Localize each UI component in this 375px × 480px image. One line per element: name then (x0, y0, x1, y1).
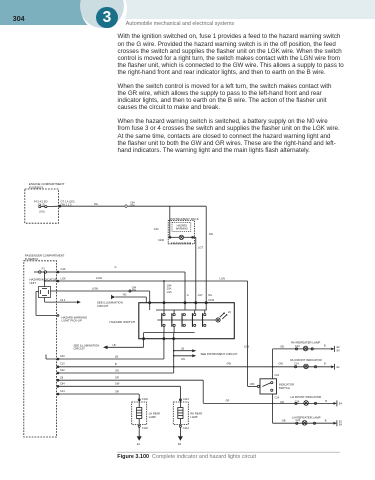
svg-text:RH REAR: RH REAR (190, 411, 202, 415)
wire LGK drop to hazard switch (163, 281, 165, 303)
LH front labels (226, 400, 343, 406)
hazard/indicator unit label (30, 277, 57, 285)
svg-text:WARNING: WARNING (176, 228, 188, 231)
illumination feed arrow in (112, 295, 147, 303)
svg-text:LGT: LGT (198, 246, 204, 250)
svg-text:LAMP: LAMP (149, 415, 156, 419)
svg-text:C42: C42 (60, 369, 65, 372)
svg-text:FUSEBOX: FUSEBOX (25, 257, 39, 261)
wire G labels (61, 265, 117, 271)
instrument feed arrows (174, 349, 197, 357)
svg-text:C10: C10 (60, 363, 65, 366)
passenger compartment fusebox (24, 261, 57, 437)
RH rear lamp lower connector (179, 425, 181, 427)
fusebox row labels (60, 355, 120, 393)
svg-text:CIRCUIT: CIRCUIT (97, 304, 109, 308)
svg-text:LGW: LGW (92, 286, 98, 290)
wire LGW from flasher to hazard switch (51, 291, 150, 303)
svg-text:GB: GB (280, 345, 284, 348)
connector C84 label (132, 286, 137, 291)
RH rear lamp (173, 402, 188, 425)
svg-text:LGK: LGK (61, 276, 66, 280)
RH rear lamp label (190, 411, 202, 419)
hazard warning light pick-up wire (36, 292, 59, 317)
hazard warning module box (172, 222, 191, 231)
hazard switch bottom terminals (143, 338, 175, 340)
svg-text:C24: C24 (296, 419, 301, 422)
svg-text:20A: 20A (132, 289, 137, 292)
svg-text:C114: C114 (183, 427, 189, 430)
svg-text:LGW: LGW (96, 276, 102, 280)
label GW (227, 362, 284, 366)
svg-text:E4: E4 (339, 424, 343, 427)
svg-text:C230: C230 (158, 239, 165, 242)
svg-text:GN: GN (181, 358, 185, 361)
LGN wire drop to indicator switch (248, 281, 260, 388)
wire LGK labels (61, 276, 225, 280)
wire G to hazard switch (57, 271, 186, 303)
LH rear lamp label (149, 411, 160, 419)
svg-text:LGN: LGN (244, 346, 249, 349)
svg-text:10A: 10A (130, 204, 135, 207)
engine compartment fusebox (25, 189, 59, 223)
svg-text:C8: C8 (60, 376, 64, 379)
LH rear lamp ground (137, 428, 142, 441)
svg-text:B: B (324, 345, 326, 348)
wire NG vertical drop to hazard switch (205, 206, 207, 303)
hazard switch internal top bus (150, 303, 207, 310)
svg-text:GW 1 1.5: GW 1 1.5 (61, 202, 73, 206)
svg-text:GN: GN (115, 369, 119, 372)
svg-text:LGK: LGK (167, 291, 172, 294)
link repeater to indicator switch (272, 349, 274, 379)
hazard switch (139, 303, 235, 339)
svg-text:E4: E4 (337, 349, 341, 352)
svg-text:GW: GW (279, 362, 284, 366)
hazard switch tell-tale lamp (208, 312, 228, 322)
svg-text:GR: GR (280, 401, 284, 404)
svg-text:LGT: LGT (198, 294, 203, 297)
illumination return arrow (103, 339, 144, 349)
svg-text:RH FRONT INDICATOR: RH FRONT INDICATOR (290, 358, 321, 362)
hazard warning lamp (168, 235, 196, 239)
svg-text:C20: C20 (154, 228, 159, 231)
instrument pack (168, 221, 194, 244)
svg-text:LGN: LGN (220, 276, 225, 280)
connector C84 on wire NG (124, 204, 128, 208)
svg-text:LB: LB (115, 355, 118, 358)
svg-text:GW: GW (115, 383, 120, 386)
wire GR to LH rear lamp (57, 393, 140, 402)
caption rule (117, 451, 340, 453)
junction LGK riser (163, 280, 165, 282)
flasher relay unit (39, 272, 51, 298)
wire NG from fusebox to hazard switch (58, 205, 206, 207)
svg-text:NG: NG (209, 232, 213, 236)
svg-text:C4 4: C4 4 (60, 299, 66, 302)
engine compartment fusebox label (29, 182, 65, 190)
wire GW to RH rear lamp (57, 385, 181, 402)
svg-text:C24: C24 (275, 396, 280, 399)
svg-text:LH FRONT INDICATOR: LH FRONT INDICATOR (290, 395, 321, 399)
svg-text:C102: C102 (142, 398, 149, 401)
svg-text:RH REPEATER LAMP: RH REPEATER LAMP (291, 340, 320, 344)
RH front indicator row components (295, 364, 335, 370)
wire LB hazard switch to fusebox (46, 339, 164, 360)
svg-text:C24: C24 (295, 345, 300, 348)
hazard switch top terminals (149, 302, 208, 304)
hazard switch bottom bus (144, 327, 195, 339)
svg-text:G: G (187, 294, 189, 297)
wire name labels above switch (187, 294, 212, 297)
svg-text:C102: C102 (142, 427, 149, 430)
svg-text:GR: GR (115, 390, 119, 393)
svg-text:C114: C114 (183, 398, 189, 401)
LH repeater lamp row (273, 420, 337, 426)
svg-text:C14: C14 (295, 400, 300, 403)
wire GR to LH front indicator (57, 379, 204, 403)
svg-text:24: 24 (228, 311, 231, 314)
svg-text:GB: GB (282, 420, 286, 423)
RH rear lamp ground (178, 428, 183, 441)
svg-text:GW: GW (227, 362, 232, 366)
svg-text:B: B (325, 420, 327, 423)
hazard switch moving bar (157, 319, 208, 321)
svg-text:C14: C14 (60, 390, 65, 393)
hazard warning module label (176, 224, 188, 230)
LH rear lamp connector C102 (138, 399, 140, 401)
svg-text:C40: C40 (60, 355, 65, 358)
svg-text:LB: LB (181, 347, 184, 350)
svg-text:E4: E4 (178, 443, 182, 446)
svg-text:E1: E1 (137, 443, 141, 446)
LH front indicator row (203, 400, 337, 406)
svg-text:LAMP: LAMP (190, 415, 197, 419)
wire LGT from instrument pack to hazard switch (195, 237, 197, 302)
svg-text:G: G (115, 265, 117, 269)
svg-text:CIRCUIT: CIRCUIT (74, 347, 86, 351)
indicator switch label (279, 383, 294, 391)
svg-text:NG: NG (208, 294, 212, 297)
svg-text:C84: C84 (60, 383, 65, 386)
svg-text:F1: F1 (42, 267, 46, 271)
RH repeater lamp row (273, 346, 335, 352)
svg-text:SWITCH: SWITCH (279, 386, 290, 390)
hazard warning light pick-up label (62, 315, 88, 322)
fuse F1 (34, 271, 57, 273)
wire LGK long run (44, 280, 248, 282)
svg-text:C210: C210 (208, 299, 215, 302)
svg-text:HAZARD SWITCH: HAZARD SWITCH (110, 320, 136, 324)
LH rear lamp lower connector (138, 425, 140, 427)
svg-text:NG: NG (123, 294, 127, 297)
svg-text:C24: C24 (275, 374, 280, 377)
wire branch to instrument pack (169, 206, 171, 236)
RH repeater labels (280, 345, 340, 353)
svg-text:C40: C40 (61, 267, 66, 271)
connector C84 label (130, 201, 135, 207)
svg-text:GR: GR (115, 377, 119, 380)
instrument pack pin hatch (172, 242, 191, 244)
svg-text:C14: C14 (294, 363, 299, 366)
svg-text:E4: E4 (339, 402, 343, 405)
svg-text:C84: C84 (250, 383, 255, 386)
svg-text:LH REAR: LH REAR (149, 411, 160, 415)
see illumination circuit note (lower) (74, 343, 100, 350)
passenger compartment fusebox label (25, 253, 65, 261)
svg-text:UNIT: UNIT (30, 281, 37, 285)
LH rear lamp (132, 402, 147, 425)
wire GN row3 (57, 372, 174, 374)
svg-text:LIGHT PICK-UP: LIGHT PICK-UP (62, 319, 82, 323)
indicator switch bottom wire (272, 394, 274, 423)
indicator switch (260, 379, 277, 394)
LH repeater labels (282, 419, 343, 426)
illumination feed arrow out (45, 298, 81, 304)
RH rear lamp connector C114 (179, 399, 181, 401)
svg-text:E1: E1 (337, 366, 341, 369)
fuse F4 (39, 206, 59, 208)
svg-text:SEE INSTRUMENT CIRCUIT: SEE INSTRUMENT CIRCUIT (201, 352, 238, 356)
svg-text:B: B (115, 363, 117, 366)
svg-text:B: B (324, 362, 326, 365)
connector label block C84 20A LGK (167, 284, 172, 293)
svg-text:B: B (325, 400, 327, 403)
svg-text:NG: NG (94, 202, 98, 206)
wire GW to RH front indicator (57, 366, 332, 368)
wire B2 vertical from hazard switch (173, 339, 175, 373)
wire label GT 1A (61, 199, 98, 206)
RH front labels (294, 362, 340, 369)
svg-text:(GA): (GA) (39, 211, 44, 214)
svg-text:INSTRUMENT PACK: INSTRUMENT PACK (170, 217, 198, 221)
svg-text:LB: LB (113, 344, 116, 347)
see illumination circuit note (upper) (97, 301, 123, 308)
connector C84 on wire LGW (129, 290, 131, 292)
hazard switch contact set (161, 310, 206, 327)
svg-text:GR: GR (226, 400, 230, 403)
fuse F4 value label (34, 201, 48, 214)
